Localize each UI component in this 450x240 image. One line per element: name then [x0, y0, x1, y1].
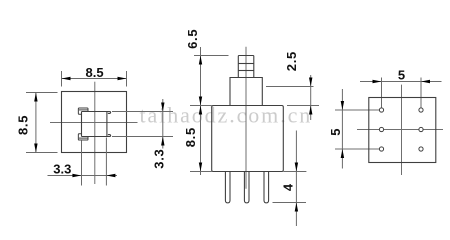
- node pin 1: [225, 172, 230, 203]
- svg-text:6.5: 6.5: [185, 29, 200, 49]
- pin hole B2: [419, 127, 423, 131]
- svg-text:8.5: 8.5: [183, 127, 198, 147]
- extension of body bottom to left for 8.5 dim: [190, 171, 212, 173]
- wire vertical centerline right view: [401, 85, 403, 175]
- wire pin column extension right: [420, 78, 422, 108]
- node outer square body: [62, 92, 127, 153]
- dimension 3.3 bottom (left view): [48, 138, 118, 186]
- dimension 8.5 (middle view): [190, 106, 212, 176]
- dimension 6.5 (middle view): [194, 47, 229, 106]
- svg-text:3.3: 3.3: [53, 161, 71, 176]
- dimension 8.5 left (left view): [26, 93, 58, 153]
- node button top edge with right hook: [82, 112, 111, 114]
- pin hole B1: [419, 108, 423, 112]
- svg-text:8.5: 8.5: [86, 65, 104, 80]
- pin hole A2: [379, 127, 383, 131]
- node switch body: [212, 106, 284, 172]
- node top-left clip tab: [78, 108, 88, 114]
- dimension 8.5 top (left view): [62, 71, 127, 87]
- node plunger ridge 2: [238, 70, 254, 72]
- node collar: [230, 78, 262, 106]
- pin hole A3: [379, 147, 383, 151]
- node bottom-left clip tab: [78, 134, 88, 140]
- svg-text:5: 5: [398, 68, 405, 83]
- wire pin column extension left: [381, 78, 383, 108]
- pin circles: [379, 108, 423, 151]
- dimension 5 top (right view): [360, 81, 442, 83]
- svg-text:2.5: 2.5: [284, 51, 299, 71]
- pin hole A1: [379, 108, 383, 112]
- pin hole B3: [419, 147, 423, 151]
- node button bottom edge with right hook: [82, 135, 111, 137]
- node pin 2: [244, 172, 249, 203]
- svg-text:taihaodz.com.cn: taihaodz.com.cn: [140, 103, 313, 128]
- node inner button rectangle: [82, 112, 107, 137]
- wire horizontal centerline left view: [50, 122, 138, 124]
- wire vertical centerline middle view: [245, 47, 247, 189]
- node pin 3: [264, 172, 269, 203]
- wire row2 horizontal line: [357, 129, 443, 131]
- dimension 3.3 right (left view): [112, 99, 173, 149]
- dimension 5 left (right view): [341, 89, 343, 169]
- svg-text:5: 5: [328, 128, 343, 136]
- node plunger ridge 1: [238, 63, 254, 65]
- dimension 2.5 (middle view): [266, 75, 319, 120]
- node bottom square: [369, 98, 436, 163]
- wire row1 horizontal line: [335, 109, 379, 111]
- dimension 4 (middle view): [273, 131, 307, 227]
- wire row3 horizontal line: [335, 148, 379, 150]
- svg-text:3.3: 3.3: [152, 149, 167, 169]
- svg-text:8.5: 8.5: [15, 115, 30, 135]
- wire vertical centerline left view: [94, 82, 96, 184]
- svg-text:4: 4: [280, 183, 295, 191]
- node plunger: [238, 56, 254, 78]
